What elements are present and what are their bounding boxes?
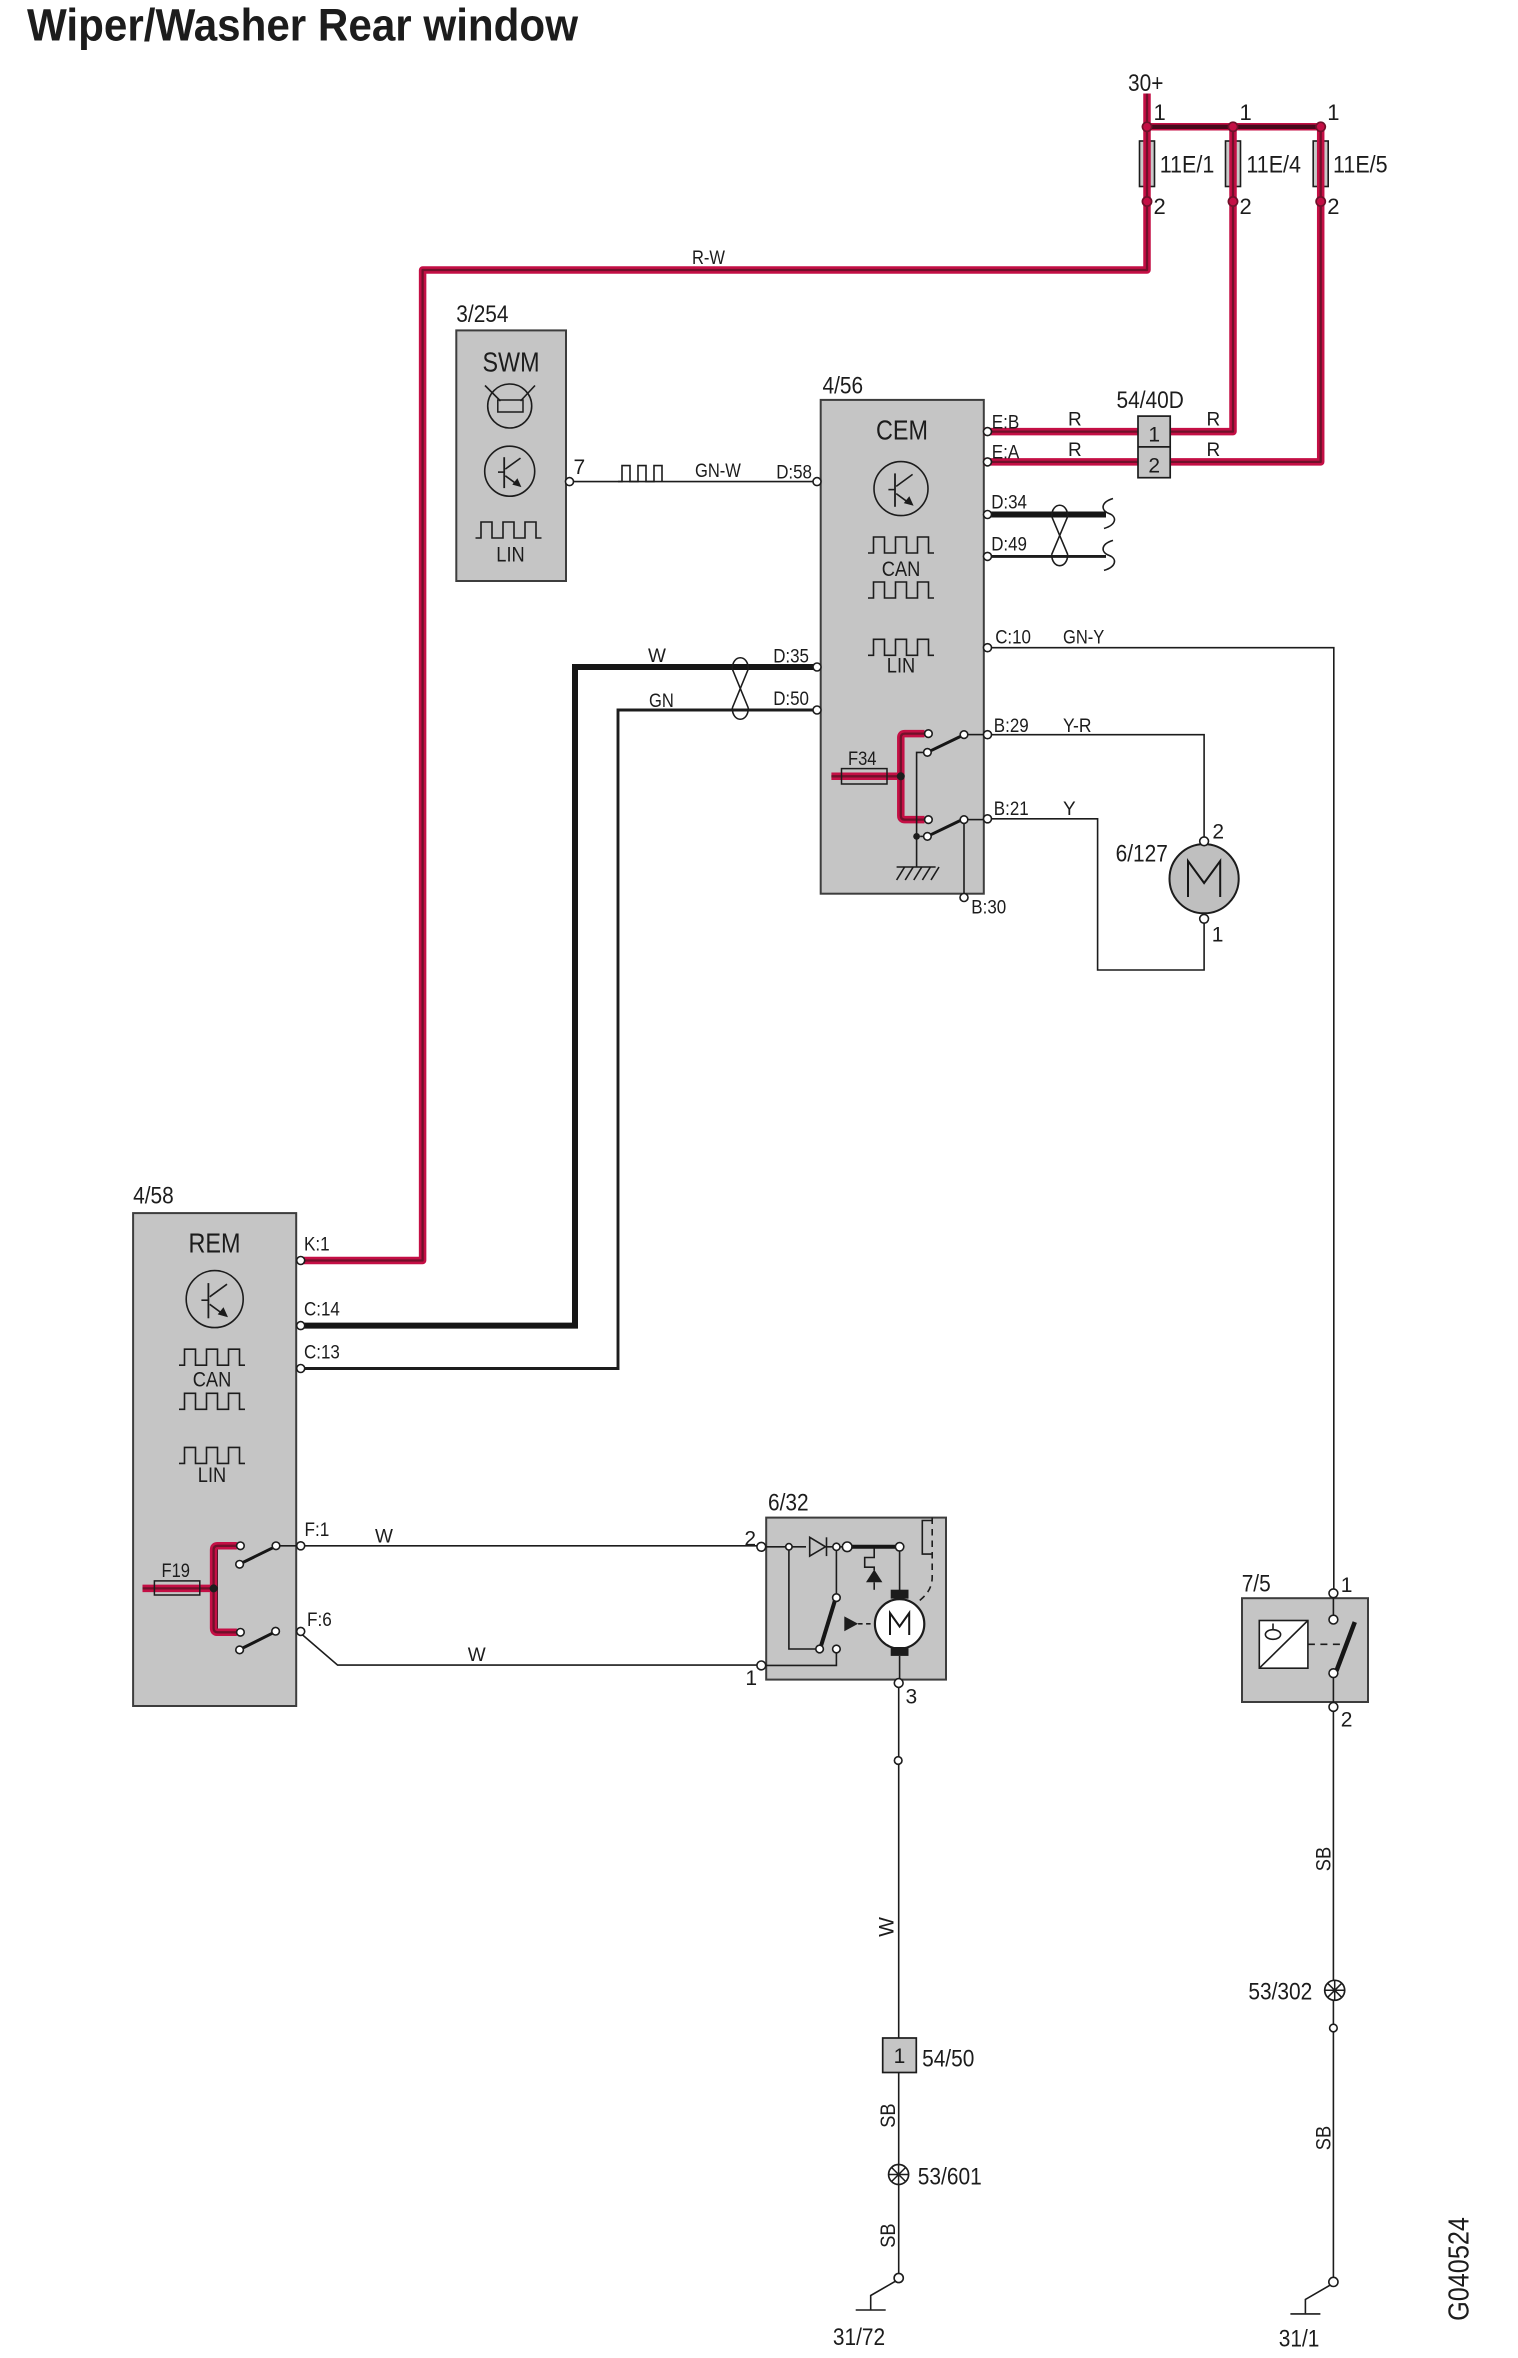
svg-text:SB: SB [1313, 2126, 1336, 2150]
svg-text:GN: GN [649, 691, 674, 712]
svg-text:REM: REM [189, 1228, 241, 1259]
svg-text:1: 1 [1154, 100, 1166, 125]
svg-text:LIN: LIN [198, 1464, 226, 1487]
svg-text:R: R [1207, 410, 1221, 431]
svg-text:2: 2 [1148, 455, 1160, 478]
svg-text:54/40D: 54/40D [1117, 387, 1184, 414]
svg-text:1: 1 [1148, 424, 1160, 447]
svg-text:2: 2 [1341, 1709, 1353, 1732]
svg-text:4/56: 4/56 [823, 373, 864, 400]
svg-text:B:29: B:29 [994, 716, 1029, 737]
svg-text:C:14: C:14 [304, 1300, 340, 1321]
svg-text:1: 1 [894, 2045, 906, 2068]
svg-text:SB: SB [877, 2223, 900, 2247]
svg-text:2: 2 [1240, 194, 1252, 219]
svg-text:11E/5: 11E/5 [1333, 152, 1388, 179]
svg-text:Y-R: Y-R [1063, 716, 1092, 737]
svg-text:W: W [375, 1527, 393, 1548]
svg-text:2: 2 [1212, 821, 1224, 844]
svg-text:D:50: D:50 [773, 689, 809, 710]
svg-text:G040524: G040524 [1444, 2217, 1476, 2321]
svg-text:31/1: 31/1 [1279, 2326, 1320, 2353]
svg-text:SB: SB [1313, 1847, 1336, 1871]
svg-text:CEM: CEM [876, 415, 928, 446]
svg-text:11E/1: 11E/1 [1160, 152, 1215, 179]
svg-text:F:6: F:6 [307, 1610, 332, 1631]
svg-text:1: 1 [1212, 924, 1224, 947]
svg-text:11E/4: 11E/4 [1246, 152, 1301, 179]
svg-text:LIN: LIN [887, 655, 915, 678]
svg-text:1: 1 [1341, 1574, 1353, 1597]
svg-text:1: 1 [1240, 100, 1252, 125]
svg-text:6/127: 6/127 [1116, 841, 1168, 868]
svg-text:R: R [1068, 410, 1082, 431]
svg-text:53/302: 53/302 [1248, 1979, 1312, 2006]
svg-text:53/601: 53/601 [918, 2164, 982, 2191]
svg-text:GN-W: GN-W [695, 461, 741, 482]
svg-text:F19: F19 [162, 1561, 191, 1582]
svg-text:SB: SB [877, 2103, 900, 2127]
svg-text:C:10: C:10 [995, 628, 1031, 649]
svg-text:SWM: SWM [483, 347, 540, 378]
svg-text:GN-Y: GN-Y [1063, 628, 1105, 649]
svg-text:W: W [876, 1917, 899, 1937]
svg-text:7/5: 7/5 [1242, 1571, 1271, 1598]
svg-text:W: W [468, 1645, 486, 1666]
svg-text:3/254: 3/254 [456, 301, 508, 328]
svg-text:Y: Y [1063, 799, 1076, 820]
svg-text:31/72: 31/72 [833, 2324, 885, 2351]
svg-text:F34: F34 [848, 749, 877, 770]
svg-text:Wiper/Washer Rear window: Wiper/Washer Rear window [27, 0, 579, 51]
svg-text:2: 2 [744, 1528, 756, 1551]
svg-text:4/58: 4/58 [133, 1183, 174, 1210]
svg-text:B:21: B:21 [994, 799, 1029, 820]
svg-text:D:35: D:35 [773, 647, 809, 668]
svg-text:D:49: D:49 [991, 534, 1027, 555]
svg-text:1: 1 [1327, 100, 1339, 125]
svg-text:LIN: LIN [496, 544, 524, 567]
svg-text:6/32: 6/32 [768, 1490, 809, 1517]
svg-text:E:A: E:A [992, 443, 1020, 464]
svg-text:2: 2 [1327, 194, 1339, 219]
svg-text:K:1: K:1 [304, 1235, 330, 1256]
svg-text:F:1: F:1 [305, 1520, 330, 1541]
svg-text:30+: 30+ [1128, 70, 1163, 97]
svg-text:3: 3 [906, 1686, 918, 1709]
svg-text:D:34: D:34 [991, 493, 1027, 514]
svg-text:54/50: 54/50 [922, 2046, 974, 2073]
svg-text:R-W: R-W [692, 248, 725, 269]
svg-text:D:58: D:58 [776, 463, 812, 484]
svg-text:C:13: C:13 [304, 1343, 340, 1364]
svg-text:1: 1 [745, 1667, 757, 1690]
svg-text:CAN: CAN [882, 558, 921, 581]
svg-text:B:30: B:30 [971, 898, 1006, 919]
svg-text:R: R [1207, 440, 1221, 461]
svg-text:7: 7 [574, 456, 586, 479]
svg-text:E:B: E:B [992, 413, 1020, 434]
svg-text:CAN: CAN [193, 1369, 232, 1392]
svg-text:W: W [648, 646, 666, 667]
svg-text:R: R [1068, 440, 1082, 461]
svg-text:2: 2 [1154, 194, 1166, 219]
